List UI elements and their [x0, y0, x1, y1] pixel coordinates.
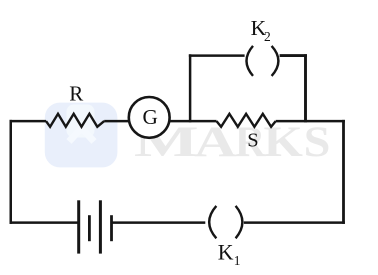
svg-text:S: S [247, 130, 258, 152]
svg-text:R: R [69, 82, 83, 106]
wire: K1 to battery [112, 221, 206, 224]
battery cell 2 negative plate (short) [110, 215, 113, 241]
wire: right vertical [342, 120, 345, 224]
svg-text:K: K [218, 241, 234, 265]
wire: bottom-right horizontal (right corner to key K1) [244, 221, 345, 224]
wire: G to resistor S (through node A) [169, 120, 217, 123]
wire: S to top-right corner (through node B) [276, 120, 345, 123]
svg-text:G: G [143, 105, 158, 129]
wire: R to galvanometer [104, 120, 129, 123]
wire: bottom-left horizontal (left corner to battery) [10, 221, 79, 224]
watermark text MARKS [134, 117, 330, 166]
wire: K2 branch left vertical (node A up) [189, 54, 192, 122]
battery cell 1 positive plate (long) [77, 200, 80, 253]
svg-text:A: A [194, 118, 236, 166]
svg-text:1: 1 [234, 253, 241, 268]
svg-text:S: S [304, 117, 331, 165]
galvanometer G circle [129, 97, 170, 138]
battery cell 2 positive plate (long) [99, 200, 102, 253]
svg-text:2: 2 [264, 29, 271, 44]
wire: top-left horizontal [10, 120, 47, 123]
key K1 (tap key) left contact arc [209, 206, 216, 238]
battery cell 1 negative plate (short) [88, 215, 91, 241]
wire: K2 branch right vertical (down to node B) [304, 54, 307, 122]
wire: K2 branch top-right segment [280, 54, 307, 57]
resistor S [217, 114, 276, 127]
key K2 (tap key) right contact arc [272, 46, 279, 76]
key K2 (tap key) left contact arc [247, 46, 254, 76]
watermark logo tile [45, 103, 118, 168]
wire: left vertical [10, 120, 13, 224]
key K1 (tap key) right contact arc [236, 206, 243, 238]
wire: K2 branch top-left segment [189, 54, 245, 57]
resistor R [46, 114, 104, 127]
